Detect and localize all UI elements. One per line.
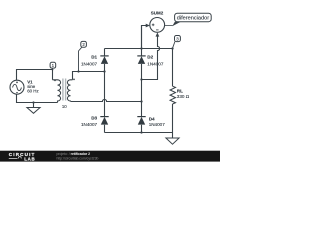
wire V1 bottom to transformer primary <box>17 94 58 103</box>
svg-text:330 Ω: 330 Ω <box>177 94 190 99</box>
svg-text:D3: D3 <box>91 116 97 121</box>
junction dot D2 cathode / rail <box>140 47 142 49</box>
diode D1 <box>81 55 109 67</box>
node 3 flag <box>171 36 180 50</box>
svg-text:D2: D2 <box>147 55 153 60</box>
svg-text:1N4007: 1N4007 <box>81 62 98 67</box>
ground stub right <box>172 133 174 139</box>
svg-text:LAB: LAB <box>24 156 35 161</box>
footer bar <box>0 151 220 162</box>
junction dot D2 anode / summer tap <box>140 78 142 80</box>
D1-D3 column wire <box>104 49 106 133</box>
diode D4 <box>137 117 165 128</box>
transformer secondary coil <box>67 80 72 102</box>
ground stub left <box>33 103 35 108</box>
top rail (bridge output +) <box>105 48 173 50</box>
svg-text:http://circuitlab.com/cyst23b: http://circuitlab.com/cyst23b <box>57 156 99 160</box>
node 1 flag <box>50 62 56 70</box>
wire summer bottom input (hops over rail) to D2 anode <box>142 36 160 79</box>
svg-text:D4: D4 <box>149 117 155 122</box>
summer SUM2 <box>150 11 165 33</box>
svg-text:SUM2: SUM2 <box>151 11 164 16</box>
arrowhead into summer left <box>146 24 150 28</box>
ground symbol right <box>166 138 179 144</box>
bottom rail <box>105 132 173 134</box>
footer logo CIRCUIT LAB <box>9 152 36 162</box>
transformer T1 primary coil <box>53 80 61 103</box>
wire summer left input from rail <box>142 26 147 49</box>
svg-text:1N4007: 1N4007 <box>81 122 98 127</box>
diode D3 <box>81 116 109 128</box>
voltage source V1 <box>10 80 24 94</box>
svg-text:diferenciador: diferenciador <box>177 16 209 22</box>
node 2 flag <box>77 41 86 72</box>
D2-D4 column wire <box>141 26 143 133</box>
svg-text:1N4007: 1N4007 <box>147 62 164 67</box>
ground symbol left <box>27 108 40 114</box>
wire secondary top to D1 column <box>73 72 105 80</box>
resistor RL <box>170 49 190 133</box>
wire V1 top to transformer primary <box>17 70 53 81</box>
arrowhead into summer bottom <box>156 32 160 36</box>
svg-text:10: 10 <box>62 104 67 109</box>
callout diferenciador <box>165 13 212 26</box>
svg-text:1N4007: 1N4007 <box>149 122 166 127</box>
junction dot secondary-top / D1 anode <box>103 70 105 72</box>
footer project text <box>57 152 99 160</box>
transformer core <box>62 79 66 101</box>
svg-text:60 Hz: 60 Hz <box>27 89 38 94</box>
diode D2 <box>137 55 164 67</box>
svg-text:RL: RL <box>177 88 183 93</box>
junction dot ground left <box>32 101 34 103</box>
junction dot secondary-bottom / D2-D4 column <box>140 100 142 102</box>
V1 labels <box>27 79 38 93</box>
transformer secondary polarity dot <box>73 79 75 81</box>
transformer primary polarity dot <box>54 80 56 82</box>
junction dot D4 anode / bottom rail <box>140 131 142 133</box>
svg-text:D1: D1 <box>91 55 97 60</box>
wire secondary bottom to D2 column (hop over D1 column) <box>71 99 142 101</box>
